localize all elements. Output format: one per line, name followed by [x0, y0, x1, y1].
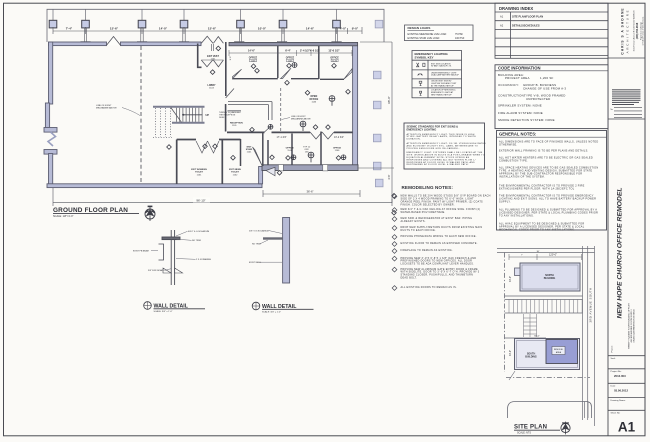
svg-text:SPRINKLER SYSTEM: NONE: SPRINKLER SYSTEM: NONE	[498, 103, 542, 107]
svg-text:SMOKE DETECTION SYSTEM: NONE: SMOKE DETECTION SYSTEM: NONE	[498, 118, 555, 122]
svg-text:2012.003: 2012.003	[614, 374, 626, 378]
svg-text:A1: A1	[618, 420, 636, 435]
svg-text:1146: 1146	[335, 150, 340, 152]
svg-text:W/ BATT. BACKUP LTS.: W/ BATT. BACKUP LTS.	[431, 65, 452, 68]
svg-text:4'-6": 4'-6"	[387, 174, 391, 179]
svg-text:NO TRIM: NO TRIM	[252, 244, 261, 246]
svg-text:2 X 4 FRAMING: 2 X 4 FRAMING	[196, 258, 211, 261]
svg-text:WATER-BASED POLYURETHANE.: WATER-BASED POLYURETHANE.	[401, 211, 446, 214]
svg-text:FIREPLACE TO REMAIN AS EXISTIN: FIREPLACE TO REMAIN AS EXISTING.	[401, 249, 453, 252]
svg-text:9'-6": 9'-6"	[230, 56, 232, 61]
svg-text:SCALE: NTS: SCALE: NTS	[517, 432, 531, 435]
svg-text:4'-0": 4'-0"	[340, 27, 347, 31]
svg-text:60'-0": 60'-0"	[534, 336, 540, 338]
svg-text:BUILDING: BUILDING	[544, 277, 556, 280]
svg-text:3/8" B FF BOARD: 3/8" B FF BOARD	[148, 269, 165, 272]
svg-text:EXTINGUISHERS PER FLOOR. WITH: EXTINGUISHERS PER FLOOR. WITH 1A-2BC/EFC…	[499, 188, 575, 191]
svg-text:A2: A2	[500, 23, 504, 27]
svg-text:4X6 T & G SOLARIUM: 4X6 T & G SOLARIUM	[188, 230, 209, 233]
svg-text:EXISTING FLOOR TO REMAIN AS EX: EXISTING FLOOR TO REMAIN AS EXPOSED CONC…	[401, 242, 478, 245]
svg-text:REMODELING NOTES:: REMODELING NOTES:	[402, 185, 454, 190]
svg-text:NO TRIM: NO TRIM	[192, 240, 201, 242]
svg-text:1,200 SF: 1,200 SF	[540, 76, 554, 80]
svg-text:9'-0": 9'-0"	[352, 27, 359, 31]
svg-text:PROVIDE EMULSIONS GIRL RE-CARE: PROVIDE EMULSIONS GIRL RE-CAREFUL.	[407, 147, 461, 150]
svg-text:1145: 1145	[311, 102, 316, 104]
svg-text:SCALE: 1/8"=1'-0": SCALE: 1/8"=1'-0"	[53, 215, 74, 218]
svg-text:TOILET: TOILET	[231, 172, 239, 174]
svg-text:100 PSF: 100 PSF	[455, 37, 465, 40]
svg-text:AREA: AREA	[556, 351, 562, 354]
svg-text:NEW HOPE CHURCH OFFICE REMODEL: NEW HOPE CHURCH OFFICE REMODEL	[617, 187, 624, 318]
svg-text:03.06.2012: 03.06.2012	[614, 388, 628, 392]
svg-text:98'-0": 98'-0"	[387, 96, 391, 104]
svg-text:EXIST WALL: EXIST WALL	[249, 261, 262, 264]
svg-text:SCALE: 3/4" = 1'-0": SCALE: 3/4" = 1'-0"	[154, 310, 173, 313]
svg-text:FINISH. COLOR SELECTED BY OWN: FINISH. COLOR SELECTED BY OWNER.	[401, 203, 455, 206]
svg-text:EXISTING MEZZANINE LIVE LOAD:: EXISTING MEZZANINE LIVE LOAD:	[408, 33, 448, 36]
svg-text:1132: 1132	[233, 174, 238, 176]
svg-text:DETAILS/SCHEDULES: DETAILS/SCHEDULES	[512, 23, 540, 27]
svg-text:10'-0": 10'-0"	[258, 27, 267, 31]
svg-text:EXTERIOR WALL FRAMING IS TO B: EXTERIOR WALL FRAMING IS TO BE PER PLANS…	[499, 150, 588, 153]
svg-text:6'-4": 6'-4"	[285, 49, 291, 53]
svg-text:(206) 783-2818: (206) 783-2818	[636, 22, 639, 39]
svg-text:OCCUPANCY:: OCCUPANCY:	[498, 83, 519, 87]
svg-text:MEZZANINE ABOVE: MEZZANINE ABOVE	[291, 118, 311, 121]
svg-text:TO ANY INSTALLATIONS.: TO ANY INSTALLATIONS.	[499, 214, 534, 217]
svg-text:14'-6": 14'-6"	[306, 27, 315, 31]
svg-text:BUILDING: BUILDING	[525, 355, 537, 358]
svg-text:14'-0": 14'-0"	[159, 27, 168, 31]
svg-text:SITE PLAN: SITE PLAN	[514, 425, 547, 431]
svg-text:120'-0": 120'-0"	[549, 252, 557, 256]
svg-text:LOCKSETS TO BE ADA COMPLIANT L: LOCKSETS TO BE ADA COMPLIANT LEVER HANDL…	[401, 263, 475, 266]
svg-text:EXIST FB BEAM: EXIST FB BEAM	[133, 249, 149, 252]
svg-text:FIRE ALARM SYSTEM: NONE: FIRE ALARM SYSTEM: NONE	[498, 111, 543, 115]
svg-text:Seal:: Seal:	[611, 358, 616, 360]
svg-text:1146: 1146	[251, 60, 256, 62]
svg-text:OFFICE: OFFICE	[309, 98, 318, 101]
svg-text:ARCHITECTURE: ARCHITECTURE	[626, 9, 630, 54]
svg-text:DRAWING INDEX: DRAWING INDEX	[499, 6, 533, 11]
svg-text:SITE PLAN/FLOOR PLAN: SITE PLAN/FLOOR PLAN	[512, 15, 543, 19]
svg-text:1146: 1146	[287, 150, 292, 152]
svg-text:Date:: Date:	[611, 385, 617, 388]
svg-text:OKANOGAN WASHINGTON 98840: OKANOGAN WASHINGTON 98840	[632, 309, 635, 343]
svg-text:PROVIDE PHONE/DATA WIRING TO E: PROVIDE PHONE/DATA WIRING TO EACH NEW OF…	[401, 235, 477, 238]
svg-text:GROUND FLOOR PLAN: GROUND FLOOR PLAN	[53, 207, 128, 214]
svg-text:13'-6 1/2": 13'-6 1/2"	[328, 49, 340, 53]
svg-text:INSTALLATION OF THE SYSTEM.: INSTALLATION OF THE SYSTEM.	[499, 175, 545, 178]
svg-text:DUCTS TO EACH OFFICE.: DUCTS TO EACH OFFICE.	[401, 229, 436, 232]
svg-text:Project No:: Project No:	[611, 370, 622, 373]
svg-text:ALL EXISTING DOORS TO REMAIN A: ALL EXISTING DOORS TO REMAIN AS IS.	[401, 286, 457, 289]
svg-text:EXISTING STAIR LIVE LOAD:: EXISTING STAIR LIVE LOAD:	[408, 37, 441, 40]
svg-text:NEW TRAVEL PATH UP: NEW TRAVEL PATH UP	[431, 94, 452, 97]
svg-text:4'-6 1/2": 4'-6 1/2"	[310, 49, 321, 53]
svg-text:CHANGE OF USE FROM A-3: CHANGE OF USE FROM A-3	[523, 86, 566, 90]
svg-text:3RD AVENUE SOUTH: 3RD AVENUE SOUTH	[588, 288, 592, 323]
svg-text:1146: 1146	[332, 60, 337, 62]
svg-text:DURATION.: DURATION.	[407, 138, 421, 141]
svg-text:Sheet No:: Sheet No:	[611, 412, 621, 415]
svg-text:17'-1 3/4": 17'-1 3/4"	[277, 136, 287, 139]
svg-text:DEAD BOLT.: DEAD BOLT.	[401, 277, 418, 280]
svg-text:1101: 1101	[211, 58, 216, 60]
svg-text:14'-6": 14'-6"	[248, 49, 256, 53]
svg-text:1141: 1141	[247, 152, 252, 154]
svg-text:OFFICE: OFFICE	[333, 147, 342, 149]
svg-text:LIGHTING AND EXIT SIGNS. ALL: LIGHTING AND EXIT SIGNS. ALL TO HAVE BAT…	[499, 198, 596, 201]
svg-text:RECEPTION: RECEPTION	[230, 123, 243, 125]
svg-text:CONSTRUCTION:: CONSTRUCTION:	[498, 94, 525, 98]
svg-text:UP: UP	[206, 114, 210, 117]
svg-text:13'-2 3/4": 13'-2 3/4"	[334, 136, 344, 139]
svg-text:DESIGN LOADS: DESIGN LOADS	[408, 26, 431, 30]
svg-text:A1: A1	[500, 15, 504, 19]
svg-text:OFFICE: OFFICE	[286, 147, 295, 149]
svg-text:GENERAL NOTES:: GENERAL NOTES:	[499, 132, 536, 137]
svg-text:15'-6": 15'-6"	[110, 27, 119, 31]
svg-text:AT THE TRAVEL PATH UP: AT THE TRAVEL PATH UP	[431, 84, 454, 87]
svg-text:COMBUSTION TYPE.: COMBUSTION TYPE.	[499, 160, 528, 163]
svg-text:Drawing Name:: Drawing Name:	[611, 399, 626, 402]
svg-text:15'-6": 15'-6"	[208, 27, 217, 31]
svg-text:5/8 T X 6 SOLARIUM: 5/8 T X 6 SOLARIUM	[249, 229, 269, 232]
svg-text:MEZZANINE ABOVE: MEZZANINE ABOVE	[96, 107, 117, 110]
svg-text:DESK: DESK	[219, 117, 225, 119]
svg-text:CHRIS S A SHORNE: CHRIS S A SHORNE	[621, 7, 625, 54]
svg-text:75 PSF: 75 PSF	[455, 33, 464, 36]
svg-text:ALREADY EXISTS.: ALREADY EXISTS.	[401, 220, 426, 223]
svg-text:OTHERWISE.: OTHERWISE.	[499, 144, 517, 147]
svg-text:SCALE: 3/4" = 1'-0": SCALE: 3/4" = 1'-0"	[262, 311, 281, 314]
svg-text:RESTRAINED AT FLOOR LEVEL & WA: RESTRAINED AT FLOOR LEVEL & WALKER PATH.	[407, 163, 469, 166]
svg-text:CODE INFORMATION: CODE INFORMATION	[498, 65, 541, 70]
svg-text:UNPROTECTED: UNPROTECTED	[526, 97, 550, 101]
svg-text:PROJECT AREA: PROJECT AREA	[505, 76, 530, 80]
svg-text:SUPPLY.: SUPPLY.	[499, 200, 511, 203]
svg-text:EMERGENCY LIGHTING: EMERGENCY LIGHTING	[407, 127, 437, 131]
svg-text:1131: 1131	[197, 174, 202, 176]
svg-text:40'-0": 40'-0"	[509, 276, 512, 282]
svg-text:STAIR: STAIR	[246, 148, 253, 151]
svg-text:Project:: Project:	[611, 345, 614, 352]
svg-text:40'-0": 40'-0"	[509, 350, 512, 356]
svg-text:TOILET: TOILET	[195, 172, 203, 174]
svg-text:SYMBOL KEY: SYMBOL KEY	[415, 56, 434, 60]
svg-text:7'-4": 7'-4"	[66, 27, 73, 31]
svg-text:1103: 1103	[209, 88, 214, 90]
svg-text:DUAL LAMP BATTERY BACKUP: DUAL LAMP BATTERY BACKUP	[431, 74, 460, 77]
svg-text:MECHANICAL CODES PRIOR TO ANY: MECHANICAL CODES PRIOR TO ANY INSTALLATI…	[499, 228, 575, 231]
svg-text:in Federal Province of Work Re: in Federal Province of Work Revisions	[642, 17, 645, 46]
svg-text:1146: 1146	[288, 60, 293, 62]
svg-text:96'-10": 96'-10"	[196, 198, 205, 202]
svg-text:36'-6": 36'-6"	[306, 190, 313, 194]
